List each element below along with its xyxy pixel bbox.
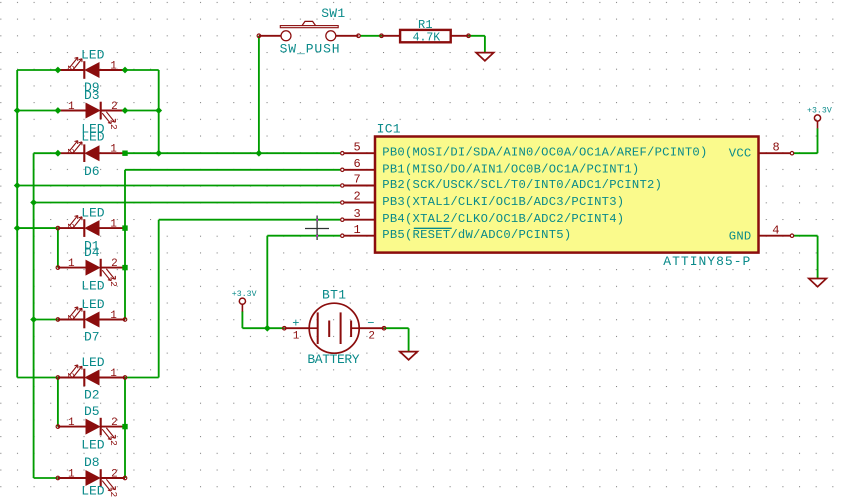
svg-text:−: − [367, 317, 374, 331]
junction D3 right [122, 107, 129, 114]
svg-text:2: 2 [108, 281, 119, 287]
label ref D4 [84, 245, 100, 260]
svg-text:1: 1 [110, 219, 117, 231]
svg-text:LED: LED [81, 47, 105, 62]
LED D7 (cathode left) [58, 307, 125, 328]
label value 4.7K [413, 31, 441, 44]
op-amp U1 IC1 ATTINY85-P body [375, 137, 759, 253]
junction LED1 left [55, 67, 62, 74]
label ref D5 [84, 404, 100, 419]
cursor crosshair [305, 216, 329, 241]
wire D3 row right [125, 110, 159, 112]
IC1 pin 1 PB5 [341, 223, 572, 242]
svg-text:PB4(XTAL2/CLKO/OC1B/ADC2/PCINT: PB4(XTAL2/CLKO/OC1B/ADC2/PCINT4) [382, 212, 624, 226]
svg-text:1: 1 [68, 258, 75, 270]
svg-text:PB3(XTAL1/CLKI/OC1B/ADC3/PCINT: PB3(XTAL1/CLKI/OC1B/ADC3/PCINT3) [382, 195, 624, 209]
wire D2-D5 link [57, 378, 59, 427]
svg-text:D2: D2 [84, 388, 100, 403]
wire net PB4 to IC pin3 [159, 219, 341, 221]
pin end D4 left [56, 266, 60, 270]
wire D2 row right [125, 377, 159, 379]
wire end D4 right [122, 265, 127, 270]
wire end D1 right [122, 225, 127, 230]
LED D4 (cathode right) [58, 258, 125, 287]
wire D1 row left [17, 227, 58, 229]
label ref D9 [84, 80, 100, 95]
svg-text:1: 1 [68, 468, 75, 480]
pin end R1 right [467, 34, 471, 38]
wire R1 ground drop [484, 36, 486, 53]
svg-text:3: 3 [354, 207, 361, 221]
pin end D8 right [123, 476, 127, 480]
svg-text:7: 7 [354, 173, 361, 187]
svg-text:2: 2 [65, 223, 76, 229]
svg-text:1: 1 [293, 331, 300, 343]
wire D8 row left [34, 477, 58, 479]
svg-text:2: 2 [65, 148, 76, 154]
IC1 pin 2 PB3 [341, 190, 625, 209]
junction PB0 V4 [155, 150, 162, 157]
svg-text:2: 2 [108, 440, 119, 446]
svg-text:6: 6 [354, 157, 361, 171]
wire end D6 right [122, 151, 127, 156]
svg-text:2: 2 [65, 315, 76, 321]
pin end SW1 right [357, 34, 361, 38]
label BATTERY [307, 352, 359, 367]
wire net PB5 to IC pin1 [267, 235, 340, 237]
svg-text:D7: D7 [84, 330, 100, 345]
pin end D8 left [56, 476, 60, 480]
svg-text:D6: D6 [84, 164, 100, 179]
svg-text:LED: LED [81, 279, 105, 294]
svg-text:2: 2 [111, 417, 118, 429]
wire bus V1 [16, 70, 18, 378]
wire PB1 column [124, 170, 126, 320]
label value LED of D8 [81, 483, 105, 498]
IC1 pin 5 PB0 [341, 140, 708, 159]
wire PB4 column [158, 220, 160, 378]
ground at IC GND [809, 279, 827, 287]
wire GND drop right [817, 236, 819, 279]
svg-text:4: 4 [772, 224, 779, 238]
pin end BT1 minus [382, 326, 386, 330]
svg-text:LED: LED [81, 437, 105, 452]
IC1 pin 7 PB2 [341, 173, 663, 192]
junction PB3 V2 [30, 199, 37, 206]
label IC1 [377, 121, 401, 136]
svg-text:+3.3V: +3.3V [807, 106, 832, 115]
svg-text:LED: LED [81, 297, 105, 312]
svg-text:+: + [292, 317, 299, 331]
svg-text:PB1(MISO/DO/AIN1/OC0B/OC1A/PCI: PB1(MISO/DO/AIN1/OC0B/OC1A/PCINT1) [382, 162, 639, 176]
svg-text:D3: D3 [84, 88, 100, 103]
wire D3 row left [17, 110, 58, 112]
svg-text:2: 2 [108, 492, 119, 498]
label ref D6 [84, 164, 100, 179]
wire R1 to ground [469, 35, 485, 37]
junction PB0 switch [256, 150, 263, 157]
svg-text:1: 1 [110, 310, 117, 322]
wire PB5 down to battery [266, 236, 268, 329]
label value ATTINY85-P [663, 254, 751, 269]
junction D3 V4 [155, 107, 162, 114]
svg-text:VCC: VCC [729, 147, 752, 161]
ground at battery [400, 352, 418, 360]
pin end BT1 plus [283, 326, 287, 330]
junction D6 left [55, 150, 62, 157]
LED D3 (cathode right) [58, 101, 125, 130]
wire bus V2 [33, 153, 35, 478]
label ref D2 [84, 388, 100, 403]
junction D3 left [55, 107, 62, 114]
wire +3.3V drop right [817, 128, 819, 153]
IC1 pin 3 PB4 [341, 207, 625, 226]
pin end D1 left [56, 226, 60, 230]
wire battery left [242, 327, 284, 329]
pin end D2 right [123, 376, 127, 380]
junction battery +3.3V [264, 325, 271, 332]
pin end D5 left [56, 425, 60, 429]
svg-text:1: 1 [110, 144, 117, 156]
junction D1 V1 [14, 225, 21, 232]
svg-text:LED: LED [81, 130, 105, 145]
svg-text:+3.3V: +3.3V [232, 290, 257, 299]
svg-text:1: 1 [68, 101, 75, 113]
label value LED of D7 [81, 297, 105, 312]
label value LED of D4 [81, 279, 105, 294]
svg-text:2: 2 [111, 258, 118, 270]
wire LED1 row left [17, 69, 58, 71]
label SW1 [321, 6, 345, 21]
ground at R1 [476, 53, 494, 61]
svg-text:BT1: BT1 [322, 287, 346, 302]
wire switch down [258, 36, 260, 153]
wire switch to R1 [360, 35, 382, 37]
wire end D5 right [122, 424, 127, 429]
label ref D3 [84, 88, 100, 103]
IC1 pin 4 GND [729, 224, 794, 244]
label ref D7 [84, 330, 100, 345]
LED D5 (cathode right) [58, 417, 125, 446]
svg-text:5: 5 [354, 140, 361, 154]
wire D2-D5-D8 column [124, 378, 126, 479]
junction LED1 right [122, 67, 129, 74]
wire net PB0 to IC pin5 [125, 152, 340, 154]
label value LED of D6 [81, 130, 105, 145]
svg-text:D5: D5 [84, 404, 100, 419]
svg-text:GND: GND [729, 229, 752, 243]
junction D3 V1 [14, 107, 21, 114]
svg-text:PB5(RESET/dW/ADC0/PCINT5): PB5(RESET/dW/ADC0/PCINT5) [382, 228, 571, 242]
svg-text:D4: D4 [84, 245, 100, 260]
LED D2 (cathode left) [58, 365, 125, 386]
label value LED of D2 [81, 355, 105, 370]
pin end D7 left [56, 318, 60, 322]
label BT1 [322, 287, 346, 302]
label SW_PUSH [280, 42, 341, 57]
IC1 pin 6 PB1 [341, 157, 640, 176]
svg-text:8: 8 [773, 140, 780, 154]
label value LED of D3 [81, 122, 105, 137]
wire LED1 column [158, 70, 160, 153]
IC1 pin 8 VCC [729, 140, 794, 160]
label ref D8 [84, 455, 100, 470]
wire net PB2 to IC pin7 [17, 185, 340, 187]
svg-text:SW1: SW1 [321, 6, 345, 21]
svg-text:2: 2 [368, 331, 375, 343]
LED D8 (cathode right) [58, 468, 125, 497]
svg-text:4.7K: 4.7K [413, 31, 441, 44]
svg-text:SW_PUSH: SW_PUSH [280, 42, 341, 57]
power +3.3V at VCC [807, 106, 832, 128]
svg-text:2: 2 [108, 124, 119, 130]
wire D6 row left [34, 152, 58, 154]
svg-text:D8: D8 [84, 455, 100, 470]
wire D7 row left [34, 319, 58, 321]
junction PB2 V1 [14, 182, 21, 189]
wire battery ground drop [408, 328, 410, 351]
svg-text:LED: LED [81, 483, 105, 498]
label ref D1 [84, 238, 100, 253]
svg-text:ATTINY85-P: ATTINY85-P [663, 254, 751, 269]
power +3.3V at battery [232, 290, 257, 312]
svg-text:LED: LED [81, 205, 105, 220]
svg-text:1: 1 [110, 368, 117, 380]
junction D7 V2 [30, 316, 37, 323]
resistor R1 [382, 30, 469, 42]
svg-text:IC1: IC1 [377, 121, 401, 136]
wire GND pin4 [794, 235, 818, 237]
pin end D7 right [123, 318, 127, 322]
LED D1 (cathode left) [58, 216, 125, 237]
svg-text:1: 1 [68, 417, 75, 429]
battery BT1 [284, 303, 384, 353]
LED D6 (cathode left) [58, 141, 125, 162]
label value LED of D1 [81, 205, 105, 220]
LED D9 (cathode left) [58, 57, 125, 78]
pin end R1 left [380, 34, 384, 38]
pin end D2 left [56, 376, 60, 380]
svg-text:R1: R1 [418, 18, 433, 32]
svg-text:LED: LED [81, 355, 105, 370]
switch SW1 SW_PUSH [259, 21, 359, 40]
IC1 RESET overline [414, 227, 452, 229]
pin end SW1 left [257, 34, 261, 38]
wire VCC pin8 to +3.3V [794, 152, 818, 154]
svg-text:1: 1 [110, 60, 117, 72]
label value LED of D9 [81, 47, 105, 62]
svg-text:2: 2 [65, 65, 76, 71]
label R1 [418, 18, 433, 32]
wire net PB3 to IC pin2 [34, 202, 341, 204]
wire net PB1 to IC pin6 [125, 169, 340, 171]
svg-text:2: 2 [354, 190, 361, 204]
svg-text:1: 1 [354, 223, 361, 237]
label value LED of D5 [81, 437, 105, 452]
svg-text:PB0(MOSI/DI/SDA/AIN0/OC0A/OC1A: PB0(MOSI/DI/SDA/AIN0/OC0A/OC1A/AREF/PCIN… [382, 146, 707, 160]
wire D1-D4 link [57, 228, 59, 268]
svg-text:BATTERY: BATTERY [307, 352, 359, 367]
wire battery right [384, 327, 409, 329]
svg-text:2: 2 [65, 373, 76, 379]
wire +3.3V to battery [241, 311, 243, 328]
wire D2 row left [17, 377, 58, 379]
wire LED1 row right [125, 69, 159, 71]
svg-text:PB2(SCK/USCK/SCL/T0/INT0/ADC1/: PB2(SCK/USCK/SCL/T0/INT0/ADC1/PCINT2) [382, 178, 662, 192]
svg-text:2: 2 [111, 468, 118, 480]
svg-text:2: 2 [111, 101, 118, 113]
